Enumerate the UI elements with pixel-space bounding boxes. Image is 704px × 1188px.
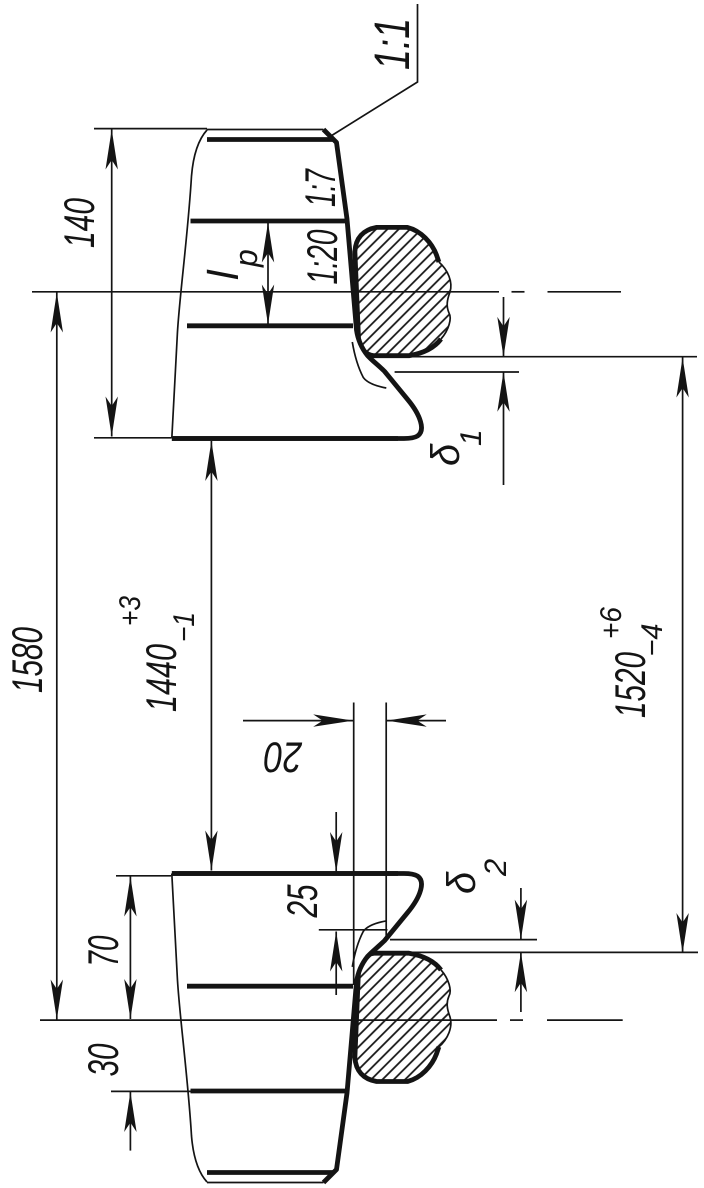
svg-text:1520: 1520 (607, 652, 655, 718)
svg-text:+3: +3 (114, 596, 147, 626)
svg-text:2: 2 (478, 859, 513, 877)
svg-text:1:1: 1:1 (364, 18, 420, 70)
svg-text:20: 20 (264, 733, 303, 781)
svg-text:p: p (228, 249, 264, 268)
svg-text:+6: +6 (595, 607, 628, 639)
svg-text:30: 30 (80, 1043, 128, 1076)
svg-text:1: 1 (455, 429, 488, 446)
svg-text:l: l (200, 269, 248, 280)
svg-text:1:7: 1:7 (297, 168, 345, 207)
svg-text:−4: −4 (636, 624, 669, 657)
svg-text:1440: 1440 (138, 644, 186, 712)
svg-text:1580: 1580 (4, 627, 52, 693)
svg-text:25: 25 (279, 884, 327, 918)
svg-text:1:20: 1:20 (299, 229, 347, 284)
svg-text:−1: −1 (168, 612, 201, 642)
svg-text:70: 70 (80, 935, 128, 966)
svg-text:140: 140 (56, 198, 104, 248)
